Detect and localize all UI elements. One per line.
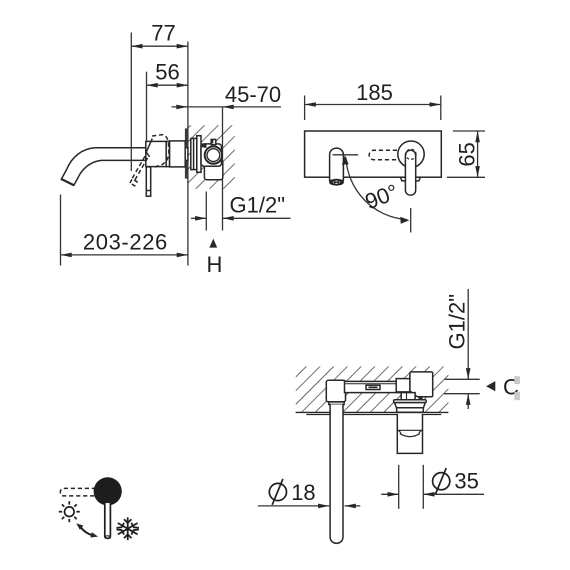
lever down front (capsule) bbox=[405, 150, 415, 195]
concealed valve lower block bbox=[204, 160, 222, 180]
wall plate front bbox=[305, 131, 442, 177]
dashed lever alternate (horizontal) bbox=[369, 150, 404, 160]
dashed knob lever horizontal bbox=[60, 488, 96, 496]
dimension G1/2 side bbox=[191, 192, 291, 231]
body cylinder (side) bbox=[170, 141, 186, 167]
svg-text:H: H bbox=[207, 252, 223, 277]
dimension C bbox=[444, 374, 519, 409]
SIDE VIEW bbox=[61, 20, 291, 277]
G1/2 socket outer circle bbox=[205, 146, 222, 163]
SECTION VIEW bbox=[258, 289, 520, 543]
elbow collar bbox=[329, 402, 344, 405]
concealed valve ring 2 bbox=[197, 136, 201, 173]
svg-text:185: 185 bbox=[356, 80, 393, 105]
FRONT VIEW bbox=[305, 80, 485, 233]
flange top ring bbox=[394, 400, 427, 403]
spout aerator bbox=[330, 179, 344, 185]
wall plate edge-on (dark bar) bbox=[185, 128, 188, 178]
flange taper bbox=[395, 403, 426, 408]
knob ball (filled) bbox=[94, 477, 122, 505]
svg-text:56: 56 bbox=[155, 60, 179, 85]
dimension 185 bbox=[305, 80, 441, 120]
dimension diameter 18 bbox=[258, 479, 360, 508]
svg-text:65: 65 bbox=[454, 142, 479, 166]
lever horizontal reference tick bbox=[333, 154, 359, 156]
dimension 77 bbox=[131, 20, 188, 171]
svg-text:18: 18 bbox=[291, 480, 315, 505]
dimension diameter 35 bbox=[381, 465, 484, 509]
sun icon (hot) bbox=[59, 501, 80, 522]
wall flange plate line bbox=[306, 414, 441, 416]
wall face line (front of wall, extension line for 77 / 45-70 / 203-226) bbox=[187, 42, 189, 266]
stem dark screw bbox=[419, 397, 423, 400]
knob stem dashed circle bbox=[406, 149, 416, 159]
snowflake icon (cold) bbox=[117, 517, 139, 540]
arm label plate bbox=[366, 385, 380, 389]
G1/2 socket inner circle bbox=[207, 149, 220, 162]
H reference marker bbox=[207, 239, 223, 277]
valve top tab bbox=[211, 139, 216, 144]
gray artifact squares bbox=[514, 376, 520, 400]
knob lever down bbox=[105, 503, 111, 539]
dimension G1/2 vertical bbox=[444, 289, 470, 379]
svg-text:G1/2": G1/2" bbox=[444, 294, 469, 350]
handle ring bbox=[166, 141, 169, 166]
concealed valve ring 1 bbox=[191, 138, 197, 169]
spout front (vertical capsule) bbox=[330, 148, 344, 180]
arm step block at valve bbox=[396, 379, 410, 392]
KNOB ICON bbox=[59, 477, 139, 540]
handle knob rect (side) bbox=[146, 141, 166, 166]
dashed lever rotated bbox=[130, 156, 148, 185]
mounting tab under plate bbox=[401, 177, 421, 181]
svg-text:45-70: 45-70 bbox=[225, 82, 281, 107]
wall hatch band (section) bbox=[296, 366, 449, 412]
concealed valve body bbox=[201, 144, 222, 166]
spout tip cut face bbox=[61, 179, 74, 186]
dimension 203-226 bbox=[61, 195, 188, 266]
in-wall arm bbox=[345, 381, 411, 392]
handle face diagonal bbox=[146, 139, 152, 157]
90 degree arc bbox=[342, 155, 411, 232]
wall face line (section) bbox=[296, 411, 449, 413]
valve dark bracket bbox=[201, 144, 207, 148]
svg-text:G1/2": G1/2" bbox=[230, 192, 286, 217]
svg-text:203-226: 203-226 bbox=[83, 229, 168, 254]
lever down (solid) bbox=[146, 167, 150, 196]
svg-text:35: 35 bbox=[454, 468, 478, 493]
back wall line / right extension of 45-70 and G1/2 bbox=[222, 107, 224, 231]
flange lower ring bbox=[397, 408, 424, 412]
spout tube (section) bbox=[330, 405, 343, 544]
dashed handle rotated outline bbox=[152, 135, 169, 168]
svg-text:77: 77 bbox=[151, 20, 175, 45]
rotation double arrow bbox=[76, 523, 98, 537]
valve body (section) bbox=[410, 372, 433, 397]
spout side view bbox=[61, 148, 188, 185]
spout elbow block bbox=[326, 380, 345, 402]
handle knob circle front bbox=[398, 141, 424, 167]
wall hatch band (side view) bbox=[188, 125, 235, 189]
valve lower cylinder bbox=[397, 414, 422, 454]
cylinder waist bbox=[397, 430, 422, 436]
dimension 65 bbox=[447, 131, 485, 177]
dimension 45-70 bbox=[172, 82, 282, 109]
valve stem bbox=[401, 393, 415, 400]
dimension 56 bbox=[147, 60, 188, 142]
